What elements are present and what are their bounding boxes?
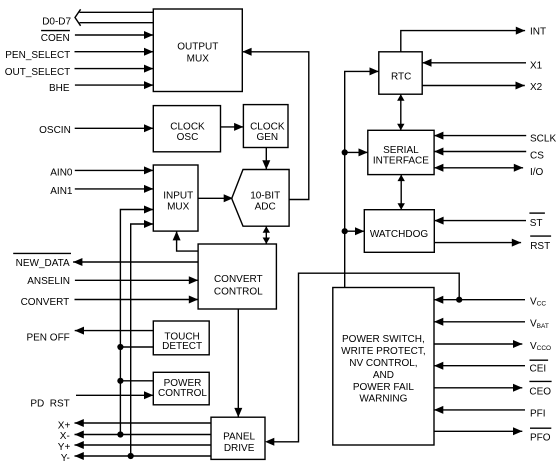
svg-text:AIN0: AIN0 (50, 168, 73, 179)
block INPUT MUX (153, 165, 198, 231)
wire X- sense vertical line (120, 210, 153, 435)
wire CEO (434, 387, 522, 389)
block 10-BIT ADC (hexagon) (232, 170, 289, 227)
wire D0-D7 bus bottom (80, 22, 154, 24)
svg-text:SERIAL: SERIAL (383, 145, 419, 156)
wire X2 (422, 85, 525, 87)
arrowhead X2 output (right) (516, 82, 525, 90)
wire RST (434, 242, 521, 244)
junction TOUCH DETECT tap on X- net (117, 344, 123, 350)
wire OUT_SELECT (75, 68, 154, 70)
arrowhead I/O into SERIAL INTERFACE (434, 164, 443, 172)
arrowhead COEN into OUTPUT MUX (144, 31, 153, 39)
wire VBAT (434, 321, 525, 323)
svg-text:MUX: MUX (167, 202, 190, 213)
block PANEL DRIVE (211, 417, 265, 459)
arrowhead X- output (left) (75, 431, 84, 439)
wire CONVERT (75, 299, 199, 301)
svg-text:OSCIN: OSCIN (39, 125, 71, 136)
svg-text:WARNING: WARNING (359, 394, 407, 405)
open arrow D0-D7 (75, 9, 81, 26)
svg-text:AIN1: AIN1 (50, 186, 73, 197)
wire Vcc rail to PANEL DRIVE (274, 273, 459, 442)
arrowhead CONVERT into CONVERT CONTROL (189, 296, 198, 304)
wire ADC to CONVERT CONTROL (bidirectional) (265, 226, 267, 244)
arrowhead I/O outward (right) (514, 164, 523, 172)
arrowhead AIN1 into INPUT MUX (144, 185, 153, 193)
wire TOUCH DETECT to X- net (120, 346, 153, 348)
wire RTC to INT (401, 31, 525, 52)
arrowhead into CLOCK GEN (234, 123, 243, 131)
arrowhead PFI into POWER block (434, 406, 443, 414)
arrowhead up into INPUT MUX bottom (173, 231, 181, 240)
wire PEN_SELECT (75, 51, 154, 53)
wire POWER block to RTC vertical feed (345, 71, 379, 287)
svg-text:MUX: MUX (187, 54, 210, 65)
arrowhead Y- output (left) (75, 452, 84, 460)
overline PFO (530, 427, 551, 429)
wire X+ (75, 422, 212, 424)
svg-text:SCLK: SCLK (530, 134, 556, 145)
wire D0-D7 bus top (80, 11, 154, 13)
svg-text:PD RST: PD RST (30, 399, 69, 410)
wire CONVERT CONTROL to INPUT MUX (177, 231, 199, 251)
wire CS (434, 151, 526, 153)
wire PEN OFF (75, 330, 154, 332)
arrowhead into PANEL DRIVE top (234, 408, 242, 417)
wire SCLK (434, 135, 526, 137)
svg-text:Y-: Y- (61, 453, 70, 464)
block POWER SWITCH / WRITE PROTECT / NV CONTROL / POWER FAIL WARNING (333, 288, 434, 446)
wire RTC to SERIAL INTERFACE (bidirectional) (400, 94, 402, 130)
svg-text:CONTROL: CONTROL (158, 388, 207, 399)
svg-text:CEO: CEO (529, 387, 551, 398)
block CONVERT CONTROL (198, 244, 276, 309)
wire COEN (75, 34, 153, 36)
wire PD RST (76, 394, 153, 396)
wire I/O (bidirectional) (434, 167, 523, 169)
junction Y- to sense line 2 (128, 453, 134, 459)
overline NEW_DATA (13, 252, 71, 254)
svg-text:NV CONTROL,: NV CONTROL, (349, 358, 417, 369)
block TOUCH DETECT (153, 321, 209, 355)
overline COEN (41, 30, 70, 32)
svg-text:OUTPUT: OUTPUT (177, 42, 218, 53)
arrowhead OUT_SELECT into OUTPUT MUX (144, 65, 153, 73)
arrowhead VCCO output (right) (513, 340, 522, 348)
arrowhead ANSELIN into CONVERT CONTROL (189, 276, 198, 284)
junction rail on Vcc wire (456, 297, 462, 303)
svg-text:X2: X2 (530, 82, 543, 93)
wire ANSELIN (75, 279, 198, 281)
wire VCC (434, 299, 525, 301)
svg-text:NEW_DATA: NEW_DATA (16, 258, 70, 269)
arrowhead up into SERIAL INTERFACE bottom (398, 175, 405, 182)
arrowhead Y- net into INPUT MUX (144, 220, 153, 228)
overline CEI (530, 359, 549, 361)
wire Y- (75, 455, 212, 457)
junction feed at WATCHDOG (342, 228, 348, 234)
arrowhead PFO output (right) (513, 427, 522, 435)
wire SERIAL INTERFACE to WATCHDOG (bidirectional) (400, 175, 402, 210)
arrowhead into ADC left vertex (224, 194, 233, 202)
svg-text:ST: ST (530, 218, 543, 229)
arrowhead up into RTC bottom (397, 94, 404, 101)
arrowhead Y+ output (left) (75, 441, 84, 449)
svg-text:POWER FAIL: POWER FAIL (353, 382, 415, 393)
block SERIAL INTERFACE (368, 130, 434, 174)
wire BHE (75, 84, 153, 86)
arrowhead CEI into POWER block (434, 362, 443, 370)
arrowhead NEW_DATA output (left) (73, 258, 82, 266)
svg-text:INT: INT (530, 27, 546, 38)
wire feed to WATCHDOG (345, 230, 365, 232)
arrowhead feed into SERIAL INTERFACE left (359, 148, 368, 156)
wire ST (434, 220, 526, 222)
arrowhead down into SERIAL INTERFACE top (397, 124, 404, 131)
svg-text:CONTROL: CONTROL (214, 286, 263, 297)
wire PFO (434, 430, 522, 432)
arrowhead PEN OFF output (left) (75, 327, 84, 335)
arrowhead CEO output (right) (513, 384, 522, 392)
svg-text:I/O: I/O (530, 167, 544, 178)
svg-text:D0-D7: D0-D7 (42, 16, 71, 27)
arrowhead OSCIN into CLOCK OSC (144, 124, 153, 132)
wire VCCO (434, 343, 522, 345)
arrowhead feed into RTC left (370, 67, 379, 75)
svg-text:PFO: PFO (530, 432, 551, 443)
svg-text:PEN OFF: PEN OFF (26, 333, 69, 344)
arrowhead X+ output (left) (75, 419, 84, 427)
svg-text:RST: RST (530, 241, 550, 252)
wire AIN0 (75, 169, 154, 171)
junction POWER CONTROL tap on X- net (117, 378, 123, 384)
svg-text:ADC: ADC (255, 202, 276, 213)
svg-text:Y+: Y+ (58, 442, 71, 453)
arrowhead down into CONVERT CONTROL top (263, 238, 270, 245)
wire ADC feedback to OUTPUT MUX (242, 52, 308, 200)
block WATCHDOG (364, 210, 434, 253)
svg-text:OUT_SELECT: OUT_SELECT (5, 67, 71, 78)
svg-text:BHE: BHE (49, 83, 70, 94)
wire OSCIN (75, 127, 154, 129)
svg-text:AND: AND (373, 370, 394, 381)
overline RST (530, 235, 551, 237)
overline CEO (529, 380, 551, 382)
arrowhead RST output (right) (512, 239, 521, 247)
arrowhead ST into WATCHDOG (434, 217, 443, 225)
wire CEI (434, 365, 525, 367)
overline ST (529, 212, 545, 214)
block CLOCK OSC (153, 106, 220, 152)
svg-text:CONVERT: CONVERT (214, 274, 263, 285)
arrowhead INT output (right) (516, 27, 525, 35)
svg-text:X1: X1 (530, 60, 543, 71)
arrowhead into ADC top (262, 160, 270, 169)
wire feed to SERIAL INTERFACE (345, 151, 368, 153)
svg-text:PEN_SELECT: PEN_SELECT (5, 50, 70, 61)
arrowhead X1 into RTC (422, 59, 431, 67)
svg-text:RTC: RTC (391, 72, 411, 83)
wire NEW_DATA (73, 261, 198, 263)
arrowhead X- net into INPUT MUX (144, 206, 153, 214)
arrowhead AIN0 into INPUT MUX (144, 166, 153, 174)
svg-text:ANSELIN: ANSELIN (27, 276, 70, 287)
svg-text:WRITE PROTECT,: WRITE PROTECT, (341, 346, 425, 357)
block RTC (379, 52, 422, 94)
svg-text:X-: X- (60, 431, 70, 442)
arrowhead down into WATCHDOG top (398, 203, 405, 210)
wire INPUT MUX to ADC (198, 197, 226, 199)
wire CONVERT CONTROL to PANEL DRIVE (237, 309, 239, 417)
wire Y+ (75, 444, 212, 446)
wire PFI (434, 409, 525, 411)
svg-text:CEI: CEI (530, 364, 547, 375)
svg-text:INTERFACE: INTERFACE (373, 156, 429, 167)
arrowhead SCLK into SERIAL INTERFACE (434, 132, 443, 140)
arrowhead feedback into OUTPUT MUX right (242, 48, 251, 56)
wire POWER CONTROL to X- net (120, 380, 153, 382)
svg-text:INPUT: INPUT (163, 190, 193, 201)
wire CLOCK OSC to CLOCK GEN (221, 126, 244, 128)
arrowhead PD RST into POWER CONTROL (144, 391, 153, 399)
arrowhead BHE into OUTPUT MUX (144, 81, 153, 89)
junction feed at SERIAL INTERFACE (342, 149, 348, 155)
svg-text:PFI: PFI (530, 408, 546, 419)
svg-text:WATCHDOG: WATCHDOG (370, 229, 429, 240)
svg-text:CLOCK: CLOCK (170, 121, 205, 132)
svg-text:PANEL: PANEL (223, 432, 255, 443)
arrowhead rail into PANEL DRIVE right (265, 438, 274, 446)
wire X1 (422, 62, 526, 64)
svg-text:CLOCK: CLOCK (250, 121, 285, 132)
arrowhead PEN_SELECT into OUTPUT MUX (144, 48, 153, 56)
svg-text:GEN: GEN (256, 132, 278, 143)
wire AIN1 (75, 188, 154, 190)
arrowhead CS into SERIAL INTERFACE (434, 148, 443, 156)
arrowhead VBAT into POWER block (434, 318, 443, 326)
block POWER CONTROL (153, 372, 209, 405)
arrowhead feed into WATCHDOG left (355, 227, 364, 235)
svg-text:COEN: COEN (41, 33, 70, 44)
arrowhead VCC into POWER block (434, 296, 443, 304)
block CLOCK GEN (243, 105, 288, 148)
svg-text:DRIVE: DRIVE (224, 443, 255, 454)
svg-text:CONVERT: CONVERT (21, 297, 70, 308)
junction X- to sense line 1 (117, 431, 123, 437)
svg-text:DETECT: DETECT (162, 341, 202, 352)
wire Y- sense vertical line (131, 224, 154, 456)
svg-text:CS: CS (530, 150, 544, 161)
svg-text:OSC: OSC (177, 132, 199, 143)
wire X- (75, 434, 212, 436)
wire CLOCK GEN to ADC (265, 148, 267, 170)
svg-text:POWER SWITCH,: POWER SWITCH, (342, 334, 425, 345)
arrowhead up into ADC bottom (263, 226, 270, 233)
svg-text:10-BIT: 10-BIT (250, 190, 280, 201)
block OUTPUT MUX (153, 9, 242, 92)
